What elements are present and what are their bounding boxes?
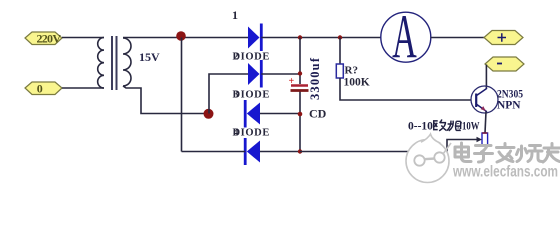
wire top rail D1 to ammeter [261, 37, 381, 39]
transformer T1 core [111, 36, 113, 90]
wire D2 cathode to +rail [261, 73, 300, 75]
junction row3 on cap rail [298, 112, 303, 117]
svg-text:100K: 100K [344, 77, 370, 89]
junction node AC2 [204, 109, 214, 119]
zi dian [455, 143, 471, 162]
wiper arrowhead [477, 137, 483, 142]
wire - port down to collector [485, 65, 487, 89]
wire bottom row AC1 to D4 [182, 151, 246, 153]
svg-text:CD: CD [309, 107, 327, 121]
watermark text dianzifashaoyou [455, 143, 560, 162]
svg-text:2: 2 [234, 52, 239, 63]
wire emitter to rheostat [485, 112, 486, 134]
wire AC1 down to bottom row [181, 38, 183, 152]
wire AC2 up to diode D2 row [209, 74, 248, 114]
transformer T1 secondary winding [123, 38, 131, 86]
junction bottom on cap rail [298, 149, 302, 153]
svg-text:4: 4 [234, 128, 239, 139]
svg-text:/10W: /10W [459, 121, 480, 133]
glyph ou [434, 119, 447, 130]
ammeter A [381, 2, 431, 71]
svg-text:R?: R? [345, 65, 358, 77]
wire ammeter to + port [431, 37, 484, 39]
port 220V [25, 32, 62, 46]
transformer T1 primary winding [98, 38, 104, 89]
wire D4 anode to bottom rail [260, 151, 300, 153]
svg-text:3: 3 [234, 90, 239, 101]
rheostat RW 0-10ohm/10W [482, 133, 488, 146]
svg-text:15V: 15V [139, 50, 160, 64]
port 0 [25, 82, 62, 96]
zi fa [497, 144, 515, 163]
glyph mu [447, 121, 461, 131]
wire resistor to transistor base [340, 78, 472, 100]
wire secondary bottom lead [123, 86, 209, 114]
svg-text:0: 0 [37, 82, 43, 96]
diode D3 (points left) [245, 100, 260, 128]
svg-text:www.elecfans.com: www.elecfans.com [452, 164, 558, 181]
wire bottom rail to rheostat wiper [300, 151, 447, 153]
wire cap rail vertical upper [299, 38, 301, 85]
junction node AC1 [176, 31, 186, 41]
wire resistor rail top [339, 38, 341, 65]
svg-text:NPN: NPN [497, 98, 521, 112]
zi zi [475, 146, 493, 163]
resistor R? 100K [336, 64, 343, 78]
wire D3 anode to +rail [260, 113, 300, 115]
svg-text:220V: 220V [37, 32, 62, 46]
diode D2 [248, 60, 261, 88]
svg-text:1: 1 [232, 8, 238, 22]
svg-text:A: A [392, 2, 417, 71]
capacitor CD 3300uf [289, 76, 309, 91]
label 0--10ohm/10W [408, 119, 480, 132]
junction DC+ at cap rail [298, 35, 302, 39]
junction row2 on cap rail [298, 71, 302, 75]
diode D1 [248, 24, 261, 52]
watermark logo elecfans [406, 134, 451, 183]
zi shao [517, 146, 543, 162]
wire cap rail vertical lower [299, 91, 301, 152]
svg-text:0--10: 0--10 [408, 121, 433, 133]
wire 220V to transformer primary [62, 37, 104, 39]
wire riser to wiper [447, 140, 477, 152]
diode D4 (points left) [245, 138, 260, 165]
port - [485, 57, 524, 71]
wire secondary top to top rail [123, 37, 248, 39]
zi you [543, 144, 560, 163]
port + [484, 31, 523, 45]
transistor Q1 2N3055 [471, 86, 498, 113]
wire 0 to transformer primary bottom [62, 87, 104, 89]
junction at resistor rail [338, 35, 342, 39]
